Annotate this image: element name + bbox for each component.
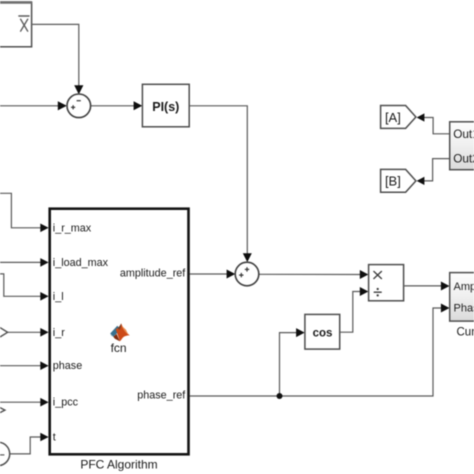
- svg-text:Current: Current: [457, 327, 474, 339]
- svg-text:[A]: [A]: [385, 110, 401, 125]
- svg-text:cos: cos: [313, 327, 333, 339]
- svg-text:amplitude_ref: amplitude_ref: [120, 268, 186, 280]
- svg-text:phase_ref: phase_ref: [137, 390, 186, 402]
- svg-text:Out2: Out2: [453, 151, 474, 165]
- svg-text:[B]: [B]: [385, 173, 401, 188]
- svg-text:Phase: Phase: [454, 303, 474, 315]
- svg-text:PFC Algorithm: PFC Algorithm: [80, 458, 157, 472]
- svg-text:i_r: i_r: [53, 327, 65, 339]
- svg-text:phase: phase: [53, 360, 82, 372]
- svg-text:t: t: [53, 432, 56, 444]
- svg-text:i_pcc: i_pcc: [53, 397, 79, 409]
- svg-text:i_r_max: i_r_max: [53, 222, 92, 234]
- svg-text:Ampl: Ampl: [454, 281, 474, 293]
- svg-text:PI(s): PI(s): [152, 100, 179, 114]
- svg-text:Out1: Out1: [453, 127, 474, 141]
- svg-text:fcn: fcn: [111, 341, 127, 355]
- svg-text:i_l: i_l: [53, 291, 64, 303]
- svg-text:i_load_max: i_load_max: [53, 257, 109, 269]
